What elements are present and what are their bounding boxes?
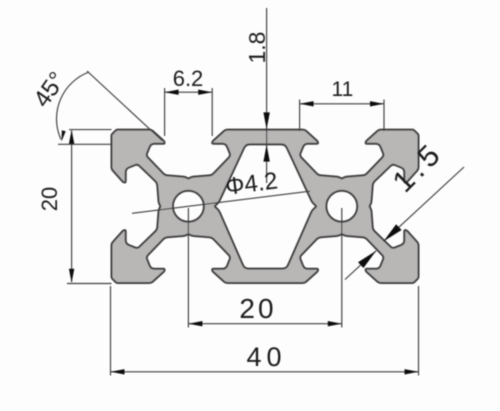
extrusion profile body (2040 V-slot cross-section with T-slot cavities, center cavity and two holes) xyxy=(112,130,419,283)
angle dimension 45 deg (slot chamfer angle) xyxy=(28,67,162,144)
dimension 1.5 (web wall thickness) xyxy=(345,136,464,280)
dimension 20 (hole centre spacing, bottom) xyxy=(188,208,341,328)
dimension 6.2 (slot opening width, top-left slot) xyxy=(165,66,213,136)
svg-text:1.8: 1.8 xyxy=(244,32,270,64)
svg-text:45°: 45° xyxy=(28,67,71,112)
dimension 11 (slot inner width, top-right slot) xyxy=(300,78,384,131)
svg-text:11: 11 xyxy=(331,78,353,101)
dimension 40 (overall width, bottom) xyxy=(111,286,419,376)
svg-text:40: 40 xyxy=(246,342,286,372)
dimension 1.8 (top wall thickness at centre) xyxy=(244,8,270,183)
svg-text:6.2: 6.2 xyxy=(173,66,204,91)
svg-text:20: 20 xyxy=(239,293,276,324)
svg-text:20: 20 xyxy=(37,187,62,211)
leader dimension phi 4.2 (centre hole diameter) xyxy=(132,167,310,213)
dimension 20 (profile height, left side) xyxy=(37,130,112,284)
